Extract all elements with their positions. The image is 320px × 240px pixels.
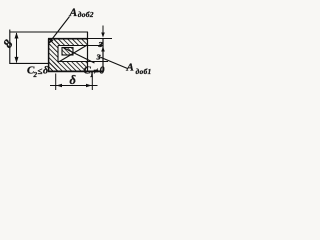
block right edge	[87, 32, 89, 72]
bottom dimension arrowhead left	[56, 84, 62, 88]
left bracket vertical	[9, 30, 11, 65]
cavity bottom edge plus right extension	[58, 61, 108, 63]
hatch left wall of block	[49, 39, 59, 71]
svg-text:A: A	[69, 7, 78, 19]
svg-text:≤: ≤	[38, 66, 43, 76]
leader arrowhead A dob2	[49, 39, 54, 44]
svg-text:≠: ≠	[94, 66, 99, 76]
housing right edge	[102, 39, 104, 72]
left dimension arrow stem	[16, 33, 18, 63]
svg-text:0: 0	[100, 66, 105, 77]
bottom dimension line	[50, 85, 98, 87]
svg-text:доб2: доб2	[78, 10, 94, 19]
X diagonal 2 on compensator	[63, 48, 95, 64]
svg-text:δ: δ	[70, 73, 77, 87]
compensator piece	[62, 48, 73, 56]
block left edge	[48, 39, 50, 72]
svg-text:δ: δ	[43, 66, 48, 77]
svg-text:A: A	[126, 62, 134, 74]
cavity left wall	[57, 46, 59, 62]
right gap callout arrow 2	[102, 48, 104, 56]
block top edge	[48, 38, 88, 40]
leader line A dob2	[49, 17, 70, 44]
leader line A dob1	[101, 57, 128, 68]
top extension of block edge to callout	[88, 38, 113, 40]
bottom dimension extension line left	[55, 74, 57, 91]
hatch top band of block	[49, 39, 88, 46]
svg-text:доб1: доб1	[136, 67, 152, 76]
bottom dimension extension line right	[91, 74, 93, 91]
left dimension arrowhead down	[15, 57, 19, 63]
block bottom edge	[48, 70, 104, 72]
cavity top edge plus right extension	[58, 45, 104, 47]
hatch bottom band of block	[49, 62, 88, 72]
left bottom extension line	[10, 62, 49, 64]
bottom dimension arrowhead right	[86, 84, 92, 88]
left dimension arrowhead up	[15, 32, 19, 38]
svg-text:з: з	[96, 51, 102, 63]
top plate upper line	[10, 31, 89, 33]
X diagonal 1 on compensator	[60, 45, 89, 62]
right gap callout arrow 1	[102, 26, 104, 37]
